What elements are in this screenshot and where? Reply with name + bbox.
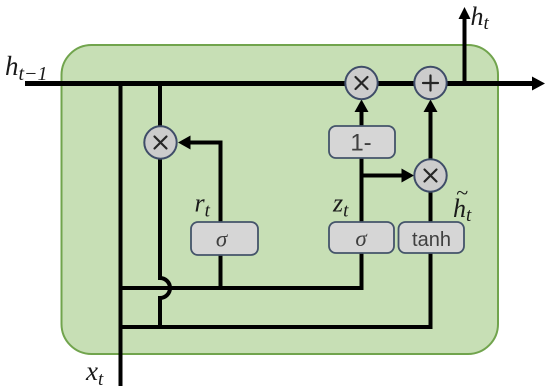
svg-text:tanh: tanh [412, 229, 451, 251]
svg-text:ht: ht [471, 2, 490, 34]
svg-text:σ: σ [355, 226, 368, 251]
svg-text:~: ~ [456, 180, 468, 205]
svg-text:ht−1: ht−1 [5, 51, 48, 85]
svg-text:σ: σ [216, 227, 229, 252]
svg-text:1-: 1- [350, 130, 371, 157]
svg-text:xt: xt [85, 356, 104, 390]
